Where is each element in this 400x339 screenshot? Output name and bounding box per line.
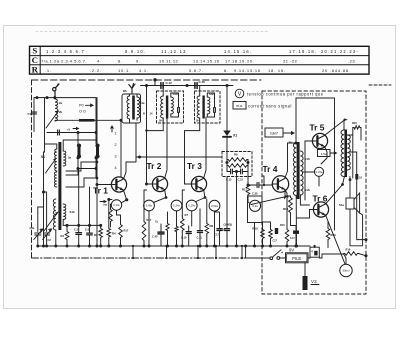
svg-text:17.18.18.: 17.18.18. xyxy=(289,49,317,54)
svg-text:C17: C17 xyxy=(214,233,219,237)
svg-text:R15: R15 xyxy=(280,223,285,227)
wire Tr2 emitter down xyxy=(148,211,150,246)
wire bubble 019 down xyxy=(191,211,193,226)
wire output stage top xyxy=(296,97,335,99)
wire C14 col down xyxy=(236,183,238,246)
junction volume rail xyxy=(253,245,256,248)
IFT2 right winding xyxy=(207,97,210,114)
wire switch to battery xyxy=(280,257,286,259)
svg-text:2: 2 xyxy=(115,143,117,147)
svg-text:5H: 5H xyxy=(159,119,162,123)
svg-text:R9: R9 xyxy=(234,153,238,157)
cap C11 bypass xyxy=(197,230,202,232)
junction gang mid xyxy=(42,191,45,194)
junction interstage top xyxy=(295,142,298,145)
AGC dashed box xyxy=(222,152,252,177)
svg-text:1.2.3.4.5.6.7: 1.2.3.4.5.6.7 xyxy=(46,49,85,54)
svg-text:Tr 1: Tr 1 xyxy=(93,186,108,196)
small box C21 xyxy=(310,247,319,257)
cap C7 on lower wire xyxy=(57,130,59,135)
svg-text:8.: 8. xyxy=(118,59,122,64)
junction on top rail x=187 xyxy=(186,84,189,87)
wire output right vertical xyxy=(334,98,336,230)
wire battery top link xyxy=(314,246,316,248)
cap C14 xyxy=(230,169,232,174)
volume control box xyxy=(248,196,263,223)
svg-text:+: + xyxy=(281,251,283,255)
svg-text:11.12.13: 11.12.13 xyxy=(161,49,187,54)
wire Tr6 emitter diagonal xyxy=(326,215,345,264)
transistor Tr2 xyxy=(152,176,167,191)
resistor R14b xyxy=(269,228,273,240)
svg-text:.1.: .1. xyxy=(45,68,52,73)
cap C18 coupling xyxy=(256,182,258,187)
wire otf right taps xyxy=(351,152,367,240)
svg-text:C.12: C.12 xyxy=(166,81,173,85)
svg-text:R17: R17 xyxy=(147,218,152,222)
wire antenna block left xyxy=(33,98,35,132)
junction Tr5 collector xyxy=(344,119,346,121)
svg-text:9.14.13.16: 9.14.13.16 xyxy=(234,68,261,73)
svg-text:3: 3 xyxy=(115,155,117,159)
svg-text:PILE: PILE xyxy=(292,256,301,261)
ma arrow Tr1 xyxy=(100,201,106,203)
wire bubble 024 down xyxy=(176,211,178,246)
svg-text:R29: R29 xyxy=(331,233,337,237)
cap C17 column xyxy=(224,228,229,230)
svg-text:2a: 2a xyxy=(59,101,63,105)
ferrite rod xyxy=(79,119,95,122)
meter bubble 30mv xyxy=(340,264,352,276)
wire mid AGC bus xyxy=(136,156,222,158)
svg-text:S4a: S4a xyxy=(140,101,145,105)
junction R2 rail xyxy=(99,245,102,248)
table row R values xyxy=(45,68,351,73)
wire coil to rail xyxy=(54,98,56,99)
wire R7 xyxy=(182,190,184,246)
wire bus right corner xyxy=(100,225,102,227)
resistor R16 xyxy=(344,252,359,256)
svg-text:8.: 8. xyxy=(224,68,229,73)
table row C values xyxy=(41,59,357,64)
box 4.5v xyxy=(318,150,331,157)
svg-text:0,52a: 0,52a xyxy=(211,204,218,208)
wire R2 down xyxy=(100,239,102,246)
wire R11 down xyxy=(247,196,249,202)
svg-text:20.21.22.23-: 20.21.22.23- xyxy=(321,49,359,54)
junction R6 top xyxy=(145,183,148,186)
antenna symbol xyxy=(53,88,56,91)
resistor R3 upper xyxy=(109,208,113,223)
junction AGC mid xyxy=(235,170,238,173)
junction R8 rail xyxy=(205,245,208,248)
wire S3 leads xyxy=(56,220,63,247)
junction C11 rail xyxy=(199,245,202,248)
wire collector feed vertical xyxy=(120,120,122,177)
wire staircase 1 xyxy=(66,162,97,171)
wire emitter node down xyxy=(108,200,110,228)
svg-text:R1: R1 xyxy=(61,234,65,238)
variable cap C1a xyxy=(35,232,41,234)
wire Tr6 collector xyxy=(326,177,345,204)
meter bubble Tr3 base xyxy=(186,200,197,211)
svg-text:30mv: 30mv xyxy=(342,269,350,273)
wire antenna block right xyxy=(95,98,97,133)
junction C14 rail xyxy=(235,245,238,248)
variable cap C2 xyxy=(44,232,50,234)
resistor R7 xyxy=(181,217,185,232)
cap C13 on rail xyxy=(160,83,162,89)
resistor R19 xyxy=(326,227,330,241)
wire left bottom bus xyxy=(63,224,100,226)
transistor Tr4 xyxy=(272,176,288,192)
meter bubble Tr1 emitter xyxy=(111,200,121,210)
coil pack core xyxy=(58,142,61,230)
svg-text:C1: C1 xyxy=(28,112,32,116)
output transformer right winding xyxy=(347,135,350,170)
IF transformer 2 dashed box xyxy=(195,91,221,123)
stray dashes top right xyxy=(369,84,391,86)
table row S values xyxy=(46,49,359,54)
wire Tr2 base up xyxy=(147,86,164,184)
wire R14 leads xyxy=(262,222,264,246)
svg-text:V2: V2 xyxy=(311,279,317,284)
wire L2 bottom xyxy=(130,118,138,123)
wire volume box down xyxy=(254,223,256,247)
wire switch lower loop xyxy=(66,169,96,179)
wire C6 leads xyxy=(89,187,91,246)
resistor R5 Tr1 emitter xyxy=(119,223,123,239)
IF transformer 1 dashed box xyxy=(157,91,184,123)
wire top supply rail xyxy=(141,85,234,87)
junction R4 rail xyxy=(107,245,110,248)
wire antenna inner left xyxy=(44,98,46,152)
cap C15 xyxy=(240,169,242,174)
wire output left vertical xyxy=(295,98,297,143)
wire C17 leads xyxy=(226,177,228,247)
cap C10 Tr2 emitter bypass xyxy=(158,231,164,233)
wire Tr5 emitter xyxy=(321,147,327,164)
svg-text:0,19v: 0,19v xyxy=(188,204,195,208)
wire bottom rail xyxy=(38,245,310,247)
junction R16 chassis xyxy=(365,254,368,257)
svg-text:Tr 3: Tr 3 xyxy=(187,161,202,171)
wire IFT2 bottom leads xyxy=(200,114,215,131)
wire Tr2 emitter xyxy=(154,190,167,203)
junction on top rail x=146.5 xyxy=(145,84,148,87)
svg-text:S1a: S1a xyxy=(339,203,344,207)
junction below rod right xyxy=(95,131,98,134)
coil L2 left winding xyxy=(127,96,130,119)
svg-text:4: 4 xyxy=(97,59,100,64)
svg-text:3H: 3H xyxy=(289,141,293,145)
svg-text:20 .644.88.: 20 .644.88. xyxy=(322,68,351,73)
meter bubble 0.15a xyxy=(314,167,323,176)
wire gang vertical mid xyxy=(43,152,45,246)
junction chassis stub 166.5 xyxy=(165,257,167,259)
svg-text:4: 4 xyxy=(311,249,313,253)
faint top page residue xyxy=(36,31,268,33)
meter bubble Tr3 bias xyxy=(171,200,182,211)
svg-text:tension continua per rapport q: tension continua per rapport que xyxy=(247,91,324,96)
svg-text:0.15a: 0.15a xyxy=(316,170,323,174)
svg-text:13.14.15.16: 13.14.15.16 xyxy=(193,59,220,64)
svg-text:17.18.19.: 17.18.19. xyxy=(225,59,246,64)
cap C10b bypass xyxy=(186,231,191,233)
junction chassis stub 242 xyxy=(241,257,243,259)
diode X1 xyxy=(223,131,231,137)
legend voltmeter symbol V xyxy=(235,89,244,98)
wire R5 leads xyxy=(117,215,121,246)
svg-text:C.6: C.6 xyxy=(85,228,90,232)
resistor R15 top xyxy=(353,126,361,129)
svg-text:18. 15.: 18. 15. xyxy=(268,68,286,73)
svg-text:C.16: C.16 xyxy=(199,80,206,84)
meter bubble Tr3 emitter xyxy=(209,200,220,211)
wire battery to right xyxy=(308,254,344,258)
coil L2 core xyxy=(132,96,135,120)
wire Tr1 emitter xyxy=(121,190,127,203)
wire rail-chassis stubs xyxy=(133,246,242,258)
cap C19 black xyxy=(275,228,278,234)
wire otf top link xyxy=(345,119,347,121)
wire speaker bottom xyxy=(350,135,363,246)
svg-text:R7: R7 xyxy=(185,213,189,217)
wire R8 xyxy=(206,199,208,246)
wire C5 leads xyxy=(78,169,80,247)
junction chassis stub 198 xyxy=(197,257,199,259)
wire plug drop xyxy=(304,263,306,277)
speaker xyxy=(346,198,354,209)
IFT1 tuning cap xyxy=(177,108,179,113)
transformer S2 left winding lower xyxy=(54,172,56,187)
junction R6 rail xyxy=(143,245,146,248)
transformer S2 adjust arrow xyxy=(46,159,57,174)
tuning coil S1A xyxy=(55,99,58,121)
resistor R8 xyxy=(205,222,209,235)
svg-text:R16: R16 xyxy=(346,248,351,252)
svg-text:.2.2.: .2.2. xyxy=(90,68,102,73)
resistor R2 xyxy=(99,227,103,239)
junction rod right xyxy=(120,119,123,122)
coil L2 right winding xyxy=(137,97,140,118)
wire R6 xyxy=(144,190,147,246)
svg-text:9V: 9V xyxy=(289,248,294,253)
wire Tr3 collector xyxy=(204,123,206,178)
wire L2 down to AGC bus xyxy=(135,123,137,157)
wire det to C18 xyxy=(248,184,264,186)
wire Tr1 base xyxy=(97,184,111,186)
frame bottom dash-dot chassis line xyxy=(32,257,263,259)
junction R7 rail xyxy=(181,245,184,248)
arrow 0.8mA xyxy=(283,132,294,135)
transformer S3 adjust arrow xyxy=(44,212,58,231)
cap C12 bypass xyxy=(217,228,222,230)
wire R1 leads xyxy=(66,225,68,246)
wire emitter node link xyxy=(109,199,112,201)
transformer S2 left winding xyxy=(54,149,56,171)
resistor R9 xyxy=(227,158,248,162)
svg-text:4: 4 xyxy=(115,166,117,170)
svg-text:R: R xyxy=(32,65,39,75)
svg-text:R15: R15 xyxy=(352,121,357,125)
transistor Tr6 xyxy=(313,202,328,217)
svg-text:C.10: C.10 xyxy=(181,236,187,240)
transistor Tr3 xyxy=(191,176,206,191)
svg-text:C.15: C.15 xyxy=(238,178,244,182)
wire C10b leads xyxy=(188,226,190,246)
svg-text:5a: 5a xyxy=(68,156,72,160)
interstage transformer core xyxy=(297,142,300,199)
junction frame dot xyxy=(153,78,156,81)
junction Tr2 emitter dot xyxy=(165,196,168,199)
svg-text:0,45v: 0,45v xyxy=(146,204,153,208)
svg-text:5.6.7.: 5.6.7. xyxy=(189,68,204,73)
svg-text:0,14v: 0,14v xyxy=(113,203,120,207)
cap C18 black xyxy=(355,174,358,180)
wire stage bottom links xyxy=(263,218,297,226)
resistor on 024 column xyxy=(175,225,178,233)
IFT2 left winding xyxy=(197,96,200,118)
junction battery top xyxy=(313,245,315,247)
wire gang riser 1 xyxy=(38,207,44,213)
output transformer core xyxy=(344,130,347,178)
pot arrow xyxy=(251,197,287,205)
junction R9 left xyxy=(226,161,229,164)
wire Tr5 collector xyxy=(325,120,345,136)
svg-text:14.15.16.: 14.15.16. xyxy=(224,49,252,54)
box 0.8mA xyxy=(265,128,283,137)
wire R16 to edge xyxy=(359,254,366,256)
frame top dashed border xyxy=(32,79,262,81)
junction staircase dots xyxy=(96,161,99,164)
svg-text:O O: O O xyxy=(79,110,86,114)
svg-text:R2: R2 xyxy=(94,233,98,237)
resistor R10a xyxy=(227,164,248,168)
resistor R7a xyxy=(166,222,169,232)
junction Tr1 emitter dot xyxy=(125,198,128,201)
junction bottom right rail dots xyxy=(261,245,264,248)
svg-text:m.a.: m.a. xyxy=(236,104,243,108)
svg-text:B: B xyxy=(143,112,145,116)
svg-text:(1MΩ): (1MΩ) xyxy=(224,223,233,227)
wire interstage right vertical xyxy=(304,150,306,200)
wire gang vertical 2 xyxy=(46,192,48,232)
wire Tr4 base node xyxy=(262,176,264,185)
svg-text:R8: R8 xyxy=(210,224,214,228)
coil L2 rounded box xyxy=(122,94,141,123)
wire Tr5 base xyxy=(305,141,312,150)
svg-text:C17: C17 xyxy=(220,228,225,232)
svg-text:5H: 5H xyxy=(196,119,199,123)
svg-text:B6: B6 xyxy=(123,89,127,93)
svg-text:.23.: .23. xyxy=(348,59,357,64)
resistor R1 xyxy=(65,230,69,241)
svg-text:C17: C17 xyxy=(273,240,278,243)
svg-text:C.40: C.40 xyxy=(152,235,158,239)
junction C10 rail xyxy=(148,245,151,248)
junction chassis stub 216 xyxy=(215,257,217,259)
output section dashed box xyxy=(262,91,366,294)
junction AGC bus left xyxy=(138,156,141,159)
wire below rod xyxy=(47,132,96,134)
svg-text:R11: R11 xyxy=(242,188,247,192)
junction left rail dots xyxy=(54,245,57,248)
wire diode from rail xyxy=(226,86,228,131)
transformer S3 left winding xyxy=(53,199,55,230)
junction left bus dots xyxy=(66,224,69,227)
junction switch 2 bottom xyxy=(95,156,98,159)
junction Tr4 base node xyxy=(263,184,265,186)
svg-text:R.16: R.16 xyxy=(252,226,258,230)
junction chassis stub 133 xyxy=(132,257,134,259)
wire L2 top leads xyxy=(130,94,138,97)
svg-text:4.1.: 4.1. xyxy=(139,68,149,73)
junction dots on block top xyxy=(36,96,39,99)
wire R15b leads xyxy=(285,190,287,246)
svg-text:X1: X1 xyxy=(233,134,237,138)
wire output transformer top xyxy=(344,120,353,135)
svg-text:Tr 5: Tr 5 xyxy=(310,123,325,133)
svg-text:20.: 20. xyxy=(247,59,254,64)
cap C6 xyxy=(87,232,93,234)
wire Tr1 collector xyxy=(121,157,136,179)
wire interstage bottom xyxy=(296,195,309,246)
transformer S2 right winding xyxy=(63,151,66,166)
transformer S3 right winding xyxy=(63,204,66,220)
wire R15 right xyxy=(360,128,362,141)
battery box PILE xyxy=(286,253,309,263)
svg-text:7/a.1.2a.2.3.4.5.6.7.: 7/a.1.2a.2.3.4.5.6.7. xyxy=(41,59,87,64)
IFT1 left winding xyxy=(161,96,164,118)
wire antenna block top xyxy=(34,97,96,99)
junction gang rail dots xyxy=(36,245,39,248)
junction Tr1 base xyxy=(96,183,99,186)
junction on top rail x=227 xyxy=(226,84,229,87)
junction det-switch xyxy=(244,245,247,248)
junction C17 rail xyxy=(226,245,229,248)
wire Tr1 emitter down xyxy=(116,210,118,215)
junction Tr3 emitter dot xyxy=(204,196,207,199)
svg-text:0,3a: 0,3a xyxy=(252,204,258,208)
wire C11 leads xyxy=(199,209,201,246)
wire speaker top xyxy=(349,177,351,199)
resistor R4 lower xyxy=(107,227,111,239)
resistor R6 Tr2 emitter xyxy=(142,220,146,242)
wire Tr4 collector xyxy=(285,143,296,178)
wire bubble 052 down xyxy=(214,211,216,246)
interstage transformer right winding xyxy=(300,151,303,195)
svg-text:1: 1 xyxy=(115,132,117,136)
wire long vertical from rod xyxy=(96,98,98,246)
wire diode to AGC box xyxy=(226,137,228,160)
cap C20 small black xyxy=(293,231,299,234)
wire 30mv link xyxy=(344,254,346,264)
antenna 2 symbol xyxy=(129,84,135,95)
wire Tr2 collector xyxy=(165,123,167,178)
wire Tr3 base up xyxy=(185,131,200,184)
IFT1 core xyxy=(166,96,168,119)
IFT1 right winding xyxy=(171,97,174,114)
svg-text:8.9.10.: 8.9.10. xyxy=(125,49,146,54)
junction emitter node xyxy=(107,198,110,201)
junction 052 rail xyxy=(213,245,216,248)
wire Tr4 emitter pot xyxy=(285,190,291,196)
junction R5 rail xyxy=(119,245,122,248)
junction chassis tap xyxy=(365,238,368,241)
resistor R11 det load xyxy=(246,183,250,196)
wire gang link xyxy=(44,152,47,192)
